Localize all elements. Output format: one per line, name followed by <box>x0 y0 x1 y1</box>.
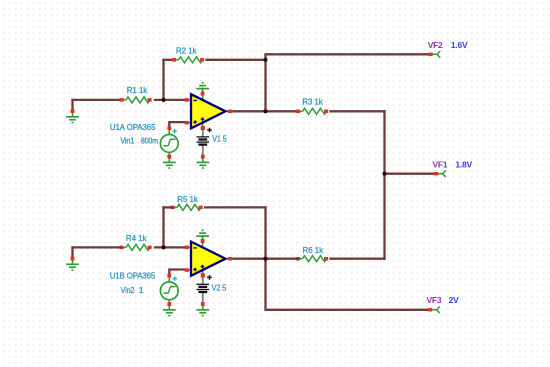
ground ground below V2 <box>196 302 209 316</box>
ground ground below Vin2 <box>163 302 176 316</box>
junction node F <box>263 257 267 261</box>
wire junction B down to output node <box>264 60 266 112</box>
op-amp U1B <box>185 235 233 278</box>
wire R1 input run <box>73 99 122 101</box>
resistor R2 <box>172 46 204 63</box>
svg-text:1.8V: 1.8V <box>455 159 472 169</box>
svg-text:1: 1 <box>139 285 144 295</box>
svg-text:R5 1k: R5 1k <box>177 194 198 204</box>
op-amp U1A <box>185 88 233 131</box>
voltage generator Vin1 <box>160 126 178 157</box>
wire R5 right to corner <box>205 206 266 208</box>
junction node C <box>263 109 267 113</box>
wire U1B output to R6 <box>231 258 298 260</box>
wire U1B non-inverting input to Vin2 <box>169 270 185 275</box>
ground ground below Vin1 <box>163 155 176 169</box>
ground ground below V1 <box>196 155 209 169</box>
junction node B <box>263 58 267 62</box>
svg-text:V2 5: V2 5 <box>212 283 227 293</box>
wire R3 to summing column <box>331 110 385 112</box>
svg-text:V1 5: V1 5 <box>212 133 227 143</box>
svg-text:R4 1k: R4 1k <box>126 233 147 243</box>
ground ground above U1B <box>196 230 209 243</box>
wire U1A non-inverting input to Vin1 <box>169 122 185 127</box>
resistor R5 <box>171 194 203 211</box>
ground G2 <box>66 257 79 271</box>
junction node A <box>161 98 165 102</box>
svg-text:R6 1k: R6 1k <box>303 245 324 255</box>
svg-text:800m: 800m <box>141 136 158 146</box>
resistor R3 <box>296 97 328 115</box>
svg-text:R2 1k: R2 1k <box>176 46 197 56</box>
ground G1 <box>66 109 79 123</box>
battery V1 <box>197 126 228 156</box>
svg-text:2V: 2V <box>449 295 459 305</box>
resistor R4 <box>120 233 152 250</box>
wire down to ground G1 <box>71 100 73 110</box>
wire R1 to U1A inverting input <box>155 99 185 101</box>
wire R5 left lead to corner <box>164 206 173 208</box>
junction node E <box>161 245 165 249</box>
wire R2 left lead to corner <box>164 59 175 61</box>
wire feedback vertical right U1B <box>264 207 266 258</box>
wire output node down to VF3 <box>266 259 430 310</box>
voltage probe VF2 <box>428 40 468 58</box>
wire R4 to U1B inverting input <box>155 246 185 248</box>
resistor R1 <box>120 85 152 103</box>
wire feedback vertical left U1B <box>162 207 164 247</box>
wire summing column vertical <box>383 111 385 258</box>
wire jog up and right to VF2 <box>266 54 431 60</box>
svg-text:U1B OPA365: U1B OPA365 <box>110 270 156 280</box>
svg-text:VF2: VF2 <box>428 40 443 50</box>
battery V2 <box>197 273 227 304</box>
wire R4 input run <box>73 246 122 248</box>
wire to VF1 probe <box>385 173 436 175</box>
voltage generator Vin2 <box>160 274 178 305</box>
wire R6 to summing column <box>331 258 385 260</box>
resistor R6 <box>296 245 328 262</box>
svg-text:U1A OPA365: U1A OPA365 <box>110 122 156 132</box>
svg-text:R1 1k: R1 1k <box>127 85 148 95</box>
wire feedback vertical left <box>162 60 164 100</box>
wire down to ground G2 <box>71 247 73 257</box>
svg-text:Vin1: Vin1 <box>120 136 134 146</box>
svg-text:R3 1k: R3 1k <box>302 97 323 107</box>
voltage probe VF3 <box>427 295 460 313</box>
junction node D <box>382 172 386 176</box>
svg-text:1.6V: 1.6V <box>451 40 468 50</box>
svg-text:VF1: VF1 <box>433 159 448 169</box>
wire R2 right to junction B <box>207 59 266 61</box>
svg-text:Vin2: Vin2 <box>121 285 135 295</box>
svg-text:VF3: VF3 <box>427 295 442 305</box>
wire U1A output to R3 <box>231 110 298 112</box>
ground ground above U1A <box>196 83 209 96</box>
voltage probe VF1 <box>433 159 473 177</box>
